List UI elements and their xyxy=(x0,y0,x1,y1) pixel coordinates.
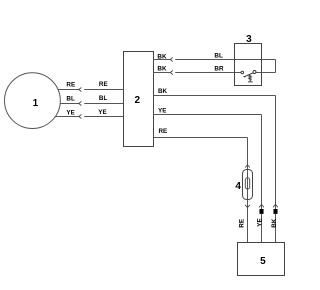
svg-text:YE: YE xyxy=(257,218,264,226)
svg-text:YE: YE xyxy=(158,108,166,115)
connector on wire BK3 (vertical) xyxy=(273,204,278,207)
wire BK3 (box 2 to box 5) xyxy=(154,96,276,243)
wire BK2 / BR (box 2 to switch in box 3) xyxy=(154,72,241,74)
wire RE (circle 1 to box 2) xyxy=(58,89,124,91)
fuse 4 xyxy=(235,170,252,200)
svg-text:RE: RE xyxy=(66,81,75,88)
svg-text:BL: BL xyxy=(99,95,108,102)
connector on wire YE (vertical) xyxy=(259,204,264,207)
svg-text:4: 4 xyxy=(235,181,241,192)
box 5 (junction unit) xyxy=(238,243,285,276)
splice square on wire YE xyxy=(259,209,263,214)
connector on wire BK1 xyxy=(170,58,173,62)
wire YE (box 2 to box 5) xyxy=(154,115,262,243)
splice square on wire BK3 xyxy=(273,209,277,214)
svg-text:BR: BR xyxy=(214,66,224,73)
svg-text:YE: YE xyxy=(98,109,106,116)
switch S1 contact right xyxy=(253,71,256,74)
svg-text:BL: BL xyxy=(214,52,223,59)
svg-text:RE: RE xyxy=(239,219,246,228)
connector below fuse 4 xyxy=(245,205,250,208)
svg-text:BK: BK xyxy=(271,218,278,228)
switch S1 contact left xyxy=(241,71,244,74)
svg-text:BK: BK xyxy=(158,88,168,95)
svg-text:YE: YE xyxy=(66,109,74,116)
svg-text:1: 1 xyxy=(33,98,39,109)
connector on wire BK2 xyxy=(170,71,173,75)
switch S1 return spring xyxy=(248,74,253,82)
svg-text:BK: BK xyxy=(157,65,167,72)
connector above fuse 4 xyxy=(245,165,250,168)
connector on wire YE xyxy=(79,115,82,119)
svg-text:BL: BL xyxy=(66,95,75,102)
box 3 (switch housing) xyxy=(235,34,262,86)
svg-text:BK: BK xyxy=(157,54,167,61)
wire YE (circle 1 to box 2) xyxy=(55,116,124,118)
wire BK1 / BL (box 2 to box 3, passes through, loops to switch) xyxy=(154,60,276,73)
svg-text:3: 3 xyxy=(246,34,252,45)
wire BL (circle 1 to box 2) xyxy=(60,103,124,105)
wire RE (box 2 to fuse 4 to box 5) xyxy=(154,138,248,243)
switch S1 blade xyxy=(244,73,254,78)
svg-text:RE: RE xyxy=(99,81,108,88)
connector on wire BL xyxy=(79,102,82,106)
svg-text:5: 5 xyxy=(260,256,266,267)
svg-text:RE: RE xyxy=(159,128,168,135)
component 1 (motor, circle) xyxy=(5,73,61,129)
svg-text:2: 2 xyxy=(135,95,141,106)
box 2 (control unit) xyxy=(124,52,154,147)
connector on wire RE xyxy=(79,88,82,92)
